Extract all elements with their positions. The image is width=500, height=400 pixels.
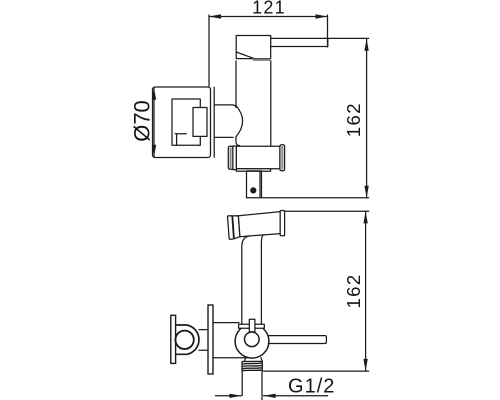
wall plate rim [213, 87, 215, 157]
nozzle [247, 171, 262, 198]
dimension G1/2 left line [216, 395, 242, 397]
handle lever [271, 38, 328, 46]
holder right cap shading [281, 146, 283, 170]
shoulder right [261, 358, 262, 362]
valve handle flange [171, 315, 176, 363]
dimension G1/2 right arrow [264, 394, 276, 398]
dimension 162 top-view line [366, 39, 368, 198]
valve handle knob [176, 325, 199, 354]
nozzle inner line [259, 171, 261, 198]
dimension 162 bottom-view up arrow [363, 211, 367, 223]
outlet tube left edge [241, 371, 243, 395]
sprayer shaft left edge [242, 236, 250, 324]
extension line 162 top [328, 37, 369, 39]
wall plate [153, 87, 211, 158]
dimension 121 right arrow [316, 14, 328, 18]
holder right cap [280, 145, 285, 171]
knob connector bottom [199, 349, 208, 351]
sprayer shaft right edge [261, 235, 263, 324]
sprayer head body [238, 212, 280, 237]
extension line 162b bottom [264, 370, 369, 372]
holder mid ring [233, 146, 237, 170]
valve stem tab [249, 319, 255, 332]
faucet body left edge upper [235, 61, 237, 106]
sprayer head right cap [280, 211, 284, 236]
svg-text:162: 162 [343, 102, 364, 137]
holder under flange [236, 169, 270, 172]
neck bottom line [215, 136, 233, 138]
handle cap gap bar [253, 59, 270, 61]
dimension G1/2 left arrow [230, 394, 242, 398]
extension line 162 bottom [262, 197, 369, 199]
svg-text:G1/2: G1/2 [288, 376, 335, 398]
dimension O70 bottom arrow [152, 145, 156, 157]
neck top line [215, 105, 236, 108]
dimension 121 extension line right [327, 15, 329, 47]
valve body bottom line [213, 357, 248, 359]
wall plate edge bottom view [208, 305, 213, 374]
holder left cap [228, 146, 233, 169]
valve body top line [213, 322, 239, 324]
dimension 162 top-view up arrow [364, 39, 368, 51]
handle cap [236, 36, 271, 59]
valve inner circle [245, 332, 260, 347]
sprayer head ring [233, 216, 240, 239]
handle cap chamfer [236, 52, 254, 59]
nozzle screw dot [250, 187, 256, 193]
svg-text:Ø70: Ø70 [130, 100, 155, 142]
faucet body right edge [270, 61, 272, 146]
valve main circle [235, 324, 269, 358]
dimension G1/2 right line [264, 395, 328, 397]
svg-text:121: 121 [252, 0, 286, 18]
dimension 162 bottom-view line [365, 211, 367, 371]
dimension 162 bottom-view down arrow [363, 359, 367, 371]
spray arm [268, 336, 327, 344]
holder body [236, 146, 280, 169]
thread ridges [242, 363, 262, 371]
svg-text:162: 162 [343, 273, 364, 308]
threads [242, 361, 263, 371]
holder left cap shading [230, 148, 232, 169]
dimension O70 line [153, 88, 155, 157]
neck joint arc [236, 106, 243, 137]
sprayer head tip cap [227, 216, 233, 240]
valve cap band [239, 324, 265, 328]
valve handle inner circle [175, 331, 193, 349]
mounting notch [175, 134, 186, 145]
outlet tube right edge [261, 371, 263, 400]
dimension 121 extension line left [208, 15, 210, 86]
shoulder left [244, 358, 245, 362]
mounting box [172, 99, 200, 145]
dimension 162 top-view down arrow [364, 186, 368, 198]
extension line 162b top [285, 210, 369, 212]
faucet body left edge lower [236, 137, 240, 146]
dimension O70 top arrow [152, 88, 156, 100]
dimension 121 line [209, 16, 328, 18]
mounting bracket [193, 108, 207, 137]
knob connector top [199, 329, 208, 331]
dimension 121 left arrow [209, 14, 221, 18]
